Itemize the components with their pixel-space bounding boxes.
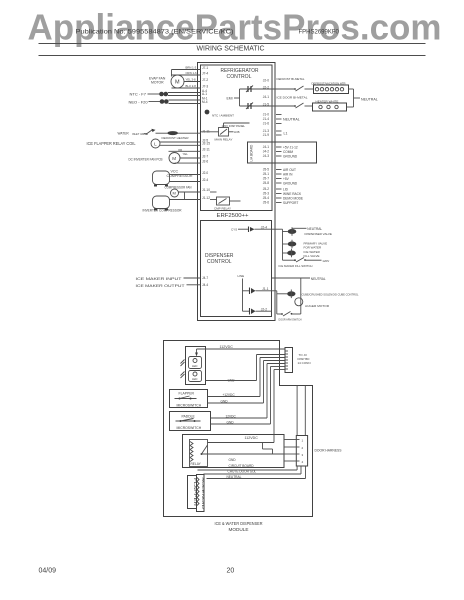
cvs diode D1 <box>231 225 272 232</box>
svg-text:+5V: +5V <box>283 177 290 181</box>
svg-text:J4-1: J4-1 <box>263 145 269 149</box>
main relay K1 <box>201 123 250 142</box>
svg-text:J5-6: J5-6 <box>263 201 269 205</box>
left edge pin labels <box>202 66 210 200</box>
compressor fan M3 <box>165 186 202 200</box>
svg-text:J2-0: J2-0 <box>202 171 208 175</box>
svg-text:GROUND: GROUND <box>283 155 298 159</box>
svg-text:NEUTRAL: NEUTRAL <box>311 277 326 281</box>
svg-text:CIRCUIT BOARD: CIRCUIT BOARD <box>229 464 255 468</box>
relay circuit board box <box>183 435 285 468</box>
svg-text:J1-6: J1-6 <box>263 122 269 126</box>
header publication text <box>76 30 340 36</box>
paddle microswitch <box>170 412 211 431</box>
led gnd wire <box>206 355 286 383</box>
svg-text:AIR IN: AIR IN <box>283 173 293 177</box>
neutral join wire <box>347 89 378 107</box>
svg-text:M: M <box>172 156 176 161</box>
svg-text:J5-4: J5-4 <box>263 196 269 200</box>
svg-text:FILL VALVE: FILL VALVE <box>304 254 320 258</box>
svg-text:PADDLE: PADDLE <box>182 415 196 419</box>
disp board 14 pin connector <box>285 348 311 373</box>
capacitor C1 <box>246 86 253 93</box>
svg-text:YEL 3-8: YEL 3-8 <box>186 78 196 82</box>
svg-text:ORN 1-6: ORN 1-6 <box>186 71 197 75</box>
svg-text:SOLENOID: SOLENOID <box>201 477 205 510</box>
svg-text:04/09: 04/09 <box>39 568 57 575</box>
svg-text:14 CONN: 14 CONN <box>298 361 311 365</box>
svg-text:NEUTRAL: NEUTRAL <box>283 118 300 122</box>
chute relay K3 <box>190 440 208 467</box>
L/A board box <box>248 142 317 163</box>
door harness connector <box>296 436 342 467</box>
svg-text:NEUTRAL: NEUTRAL <box>361 98 378 102</box>
defrost heater blob <box>162 131 202 140</box>
svg-text:ICE FLAPPER RELAY COIL: ICE FLAPPER RELAY COIL <box>87 141 137 146</box>
svg-text:J2-6: J2-6 <box>202 160 208 164</box>
neutral lower wire <box>272 277 326 314</box>
svg-text:J7-4: J7-4 <box>202 71 208 75</box>
water valve bimetal switch <box>118 129 168 136</box>
svg-text:FPHS2699KF0: FPHS2699KF0 <box>299 30 340 36</box>
svg-text:YEL: YEL <box>183 152 189 156</box>
svg-text:ICE MAKER FILL SWITCH: ICE MAKER FILL SWITCH <box>279 264 313 268</box>
svg-text:M-4: M-4 <box>202 100 208 104</box>
svg-text:J4-4: J4-4 <box>202 283 208 287</box>
flapper 12v wire <box>208 358 286 397</box>
refrigerator control inner box <box>201 65 273 211</box>
paddle gnd wire <box>211 367 286 425</box>
outer control board box <box>198 63 276 321</box>
svg-text:J2-2: J2-2 <box>261 308 267 312</box>
led arrows <box>181 360 185 379</box>
svg-text:DEMO MODE: DEMO MODE <box>283 197 303 201</box>
svg-text:J2-2: J2-2 <box>263 85 269 89</box>
svg-text:J5-8: J5-8 <box>263 181 269 185</box>
svg-text:MODULE: MODULE <box>229 527 249 532</box>
svg-text:J2-11: J2-11 <box>202 148 210 152</box>
svg-text:DISPENSER VALVE: DISPENSER VALVE <box>305 232 332 236</box>
harness stub wires <box>284 440 296 462</box>
svg-text:WATER: WATER <box>118 132 130 136</box>
watermark AppliancePartsPros.com <box>28 7 442 48</box>
svg-text:LED: LED <box>192 364 197 368</box>
svg-text:NTC / AMBIENT: NTC / AMBIENT <box>212 114 234 118</box>
ice maker fill switch <box>279 258 330 269</box>
svg-text:112VDC: 112VDC <box>220 345 234 349</box>
NTC - F7 sensor <box>130 92 202 97</box>
svg-text:NEO - F20: NEO - F20 <box>129 100 149 105</box>
EMI filter <box>227 89 273 106</box>
svg-text:ICE MAKER INPUT: ICE MAKER INPUT <box>136 276 183 281</box>
svg-text:MICROSWITCH: MICROSWITCH <box>177 404 202 408</box>
right edge pin labels top <box>263 79 269 138</box>
dispenser left pins <box>202 276 208 287</box>
svg-text:LDB: LDB <box>234 130 240 134</box>
svg-text:MOTOR: MOTOR <box>151 81 164 85</box>
svg-text:J5-2: J5-2 <box>263 187 269 191</box>
svg-text:WIRING SCHEMATIC: WIRING SCHEMATIC <box>197 44 266 53</box>
svg-text:J4-1: J4-1 <box>263 95 269 99</box>
evap fan motor wires <box>172 66 202 89</box>
svg-text:J2-15: J2-15 <box>202 142 210 146</box>
svg-text:CMP RELAY: CMP RELAY <box>214 206 231 210</box>
flapper connector strip <box>188 476 198 509</box>
svg-text:112VDC: 112VDC <box>245 436 259 440</box>
neutral stub group <box>276 115 300 124</box>
svg-text:M: M <box>175 80 180 86</box>
svg-text:COMPRESSOR FAN: COMPRESSOR FAN <box>165 186 192 190</box>
chute door sol wire <box>198 466 298 474</box>
svg-text:J1-0: J1-0 <box>263 113 269 117</box>
svg-text:J7-1: J7-1 <box>202 66 208 70</box>
svg-text:J5-1: J5-1 <box>263 172 269 176</box>
evap fan motor M1 <box>149 75 184 88</box>
svg-text:MAIN RELAY: MAIN RELAY <box>215 138 233 142</box>
svg-text:SUPPORT: SUPPORT <box>283 201 298 205</box>
led display board <box>186 347 206 385</box>
svg-text:DOOR HARNESS: DOOR HARNESS <box>315 449 343 453</box>
svg-text:ICE & WATER DISPENSER: ICE & WATER DISPENSER <box>215 521 263 526</box>
cube crushed solenoid coil <box>277 290 359 299</box>
svg-text:LINE: LINE <box>238 274 245 278</box>
line stub group <box>276 131 288 135</box>
svg-text:ICE MAKER OUTPUT: ICE MAKER OUTPUT <box>136 283 186 288</box>
relay wires <box>202 370 286 469</box>
svg-text:J1-10: J1-10 <box>202 188 210 192</box>
112VDC feed wire <box>195 345 285 357</box>
svg-text:GROUND: GROUND <box>283 182 298 186</box>
svg-text:GND: GND <box>229 458 237 462</box>
dispenser valve V1 <box>283 227 332 236</box>
NEO - F20 sensor <box>129 99 202 104</box>
refrigerator control title <box>221 68 259 80</box>
svg-text:+5V J1-12: +5V J1-12 <box>283 146 298 150</box>
svg-text:CUBE/CRUSHED SOLENOID CUBE CON: CUBE/CRUSHED SOLENOID CUBE CONTROL <box>302 292 359 296</box>
ice door bi-metal wire <box>272 96 313 109</box>
svg-text:J7-3: J7-3 <box>202 84 208 88</box>
svg-text:L1: L1 <box>284 131 288 135</box>
svg-text:AppliancePartsPros.com: AppliancePartsPros.com <box>28 7 442 48</box>
svg-text:EMI: EMI <box>227 97 233 101</box>
svg-text:WINE RACK: WINE RACK <box>283 192 302 196</box>
DC inverter fan PCB motor M2 <box>129 148 202 164</box>
svg-text:AIR OUT: AIR OUT <box>283 168 296 172</box>
ice maker input wire <box>136 276 201 281</box>
svg-text:Publication No: 5995584873 (EN: Publication No: 5995584873 (EN/SERVICE/K… <box>76 30 234 36</box>
heater white terminal box <box>313 100 347 112</box>
svg-text:J1-12: J1-12 <box>202 196 210 200</box>
svg-text:J1-9: J1-9 <box>263 133 269 137</box>
svg-text:COMM: COMM <box>283 150 293 154</box>
svg-text:LID: LID <box>283 188 289 192</box>
dispenser control title <box>205 253 234 265</box>
svg-text:ICE DOOR BI-METAL: ICE DOOR BI-METAL <box>277 96 308 100</box>
module caption <box>215 521 263 532</box>
svg-text:NEUTRAL: NEUTRAL <box>307 227 322 231</box>
svg-text:M: M <box>173 191 176 196</box>
svg-text:MICROSWITCH: MICROSWITCH <box>177 426 202 430</box>
auger motor M4 <box>295 298 330 308</box>
svg-text:RELAY: RELAY <box>191 462 202 466</box>
J5 stub group 2 <box>263 187 303 205</box>
flapper gnd wire <box>208 361 286 404</box>
J5 stub group 1 <box>263 168 298 186</box>
svg-text:J2-7: J2-7 <box>202 154 208 158</box>
inverter compressor <box>143 196 202 213</box>
cmp relay K2 <box>210 192 241 210</box>
ice maker output wire <box>136 283 201 288</box>
dispenser control box <box>201 221 272 317</box>
header rule top <box>39 43 426 45</box>
svg-text:J2-0: J2-0 <box>263 79 269 83</box>
svg-text:J1-5: J1-5 <box>263 102 269 106</box>
svg-text:FLAPPER: FLAPPER <box>179 392 195 396</box>
svg-text:20: 20 <box>227 568 235 575</box>
ice maker fill valve V3 <box>283 249 321 258</box>
harness top verticals <box>297 386 305 436</box>
svg-text:VCC: VCC <box>171 170 179 174</box>
defrost bi-metal wire <box>272 77 314 91</box>
svg-text:J1-4: J1-4 <box>263 117 269 121</box>
svg-text:J2-4: J2-4 <box>261 225 267 229</box>
ice flapper relay coil L1 <box>87 139 202 148</box>
svg-text:J4-7: J4-7 <box>202 276 208 280</box>
flapper microswitch <box>170 390 208 408</box>
svg-text:DOOR ARM SWITCH: DOOR ARM SWITCH <box>279 317 302 321</box>
svg-text:CONTROL: CONTROL <box>207 259 232 265</box>
header rule bottom <box>39 55 426 57</box>
NTC ambient sensor dot <box>205 110 235 118</box>
door arm switch <box>277 312 302 322</box>
svg-text:CONTROL: CONTROL <box>227 74 252 80</box>
svg-text:NTC - F7: NTC - F7 <box>130 92 147 97</box>
svg-text:AUGER MOTOR: AUGER MOTOR <box>305 304 330 308</box>
driver D3 <box>250 308 272 315</box>
svg-text:BLU 2-8: BLU 2-8 <box>186 84 197 88</box>
svg-text:J1-1: J1-1 <box>262 287 268 291</box>
dispenser valve bus wire <box>272 229 283 260</box>
svg-text:INVERTER COMPRESSOR: INVERTER COMPRESSOR <box>143 209 182 213</box>
svg-text:BRN 1-3: BRN 1-3 <box>186 66 197 70</box>
svg-text:J7-2: J7-2 <box>202 78 208 82</box>
dispenser module outline <box>164 341 313 517</box>
line driver tree <box>238 274 250 311</box>
solenoid connector strip <box>197 475 206 512</box>
svg-text:J2-4: J2-4 <box>202 178 208 182</box>
capacitor C2 <box>246 103 253 110</box>
cube solenoid wire <box>272 291 277 314</box>
svg-text:DC INVERTER FAN PCB: DC INVERTER FAN PCB <box>129 157 164 161</box>
svg-text:DEFROST HEATER: DEFROST HEATER <box>162 136 190 140</box>
VCC compressor <box>153 170 202 187</box>
svg-text:120V: 120V <box>322 259 329 263</box>
primary water valve V2 <box>283 240 328 250</box>
svg-text:J5-5: J5-5 <box>263 168 269 172</box>
svg-text:J4-2: J4-2 <box>263 150 269 154</box>
neutral module wire <box>204 466 302 479</box>
driver D2 <box>250 287 272 294</box>
defrost vacation heater terminal box <box>312 82 349 94</box>
svg-text:DEFROST BI-METAL: DEFROST BI-METAL <box>277 77 305 81</box>
svg-text:J4-3: J4-3 <box>263 154 269 158</box>
third module wire <box>207 466 306 479</box>
svg-text:LED: LED <box>192 377 197 381</box>
svg-text:L/A BOARD: L/A BOARD <box>250 144 254 162</box>
svg-text:ERF2500++: ERF2500++ <box>217 213 249 219</box>
svg-text:J5-3: J5-3 <box>263 192 269 196</box>
paddle 12v wire <box>211 364 286 419</box>
svg-text:J5-7: J5-7 <box>263 177 269 181</box>
svg-text:L: L <box>154 141 157 146</box>
svg-text:CYS: CYS <box>231 228 237 232</box>
